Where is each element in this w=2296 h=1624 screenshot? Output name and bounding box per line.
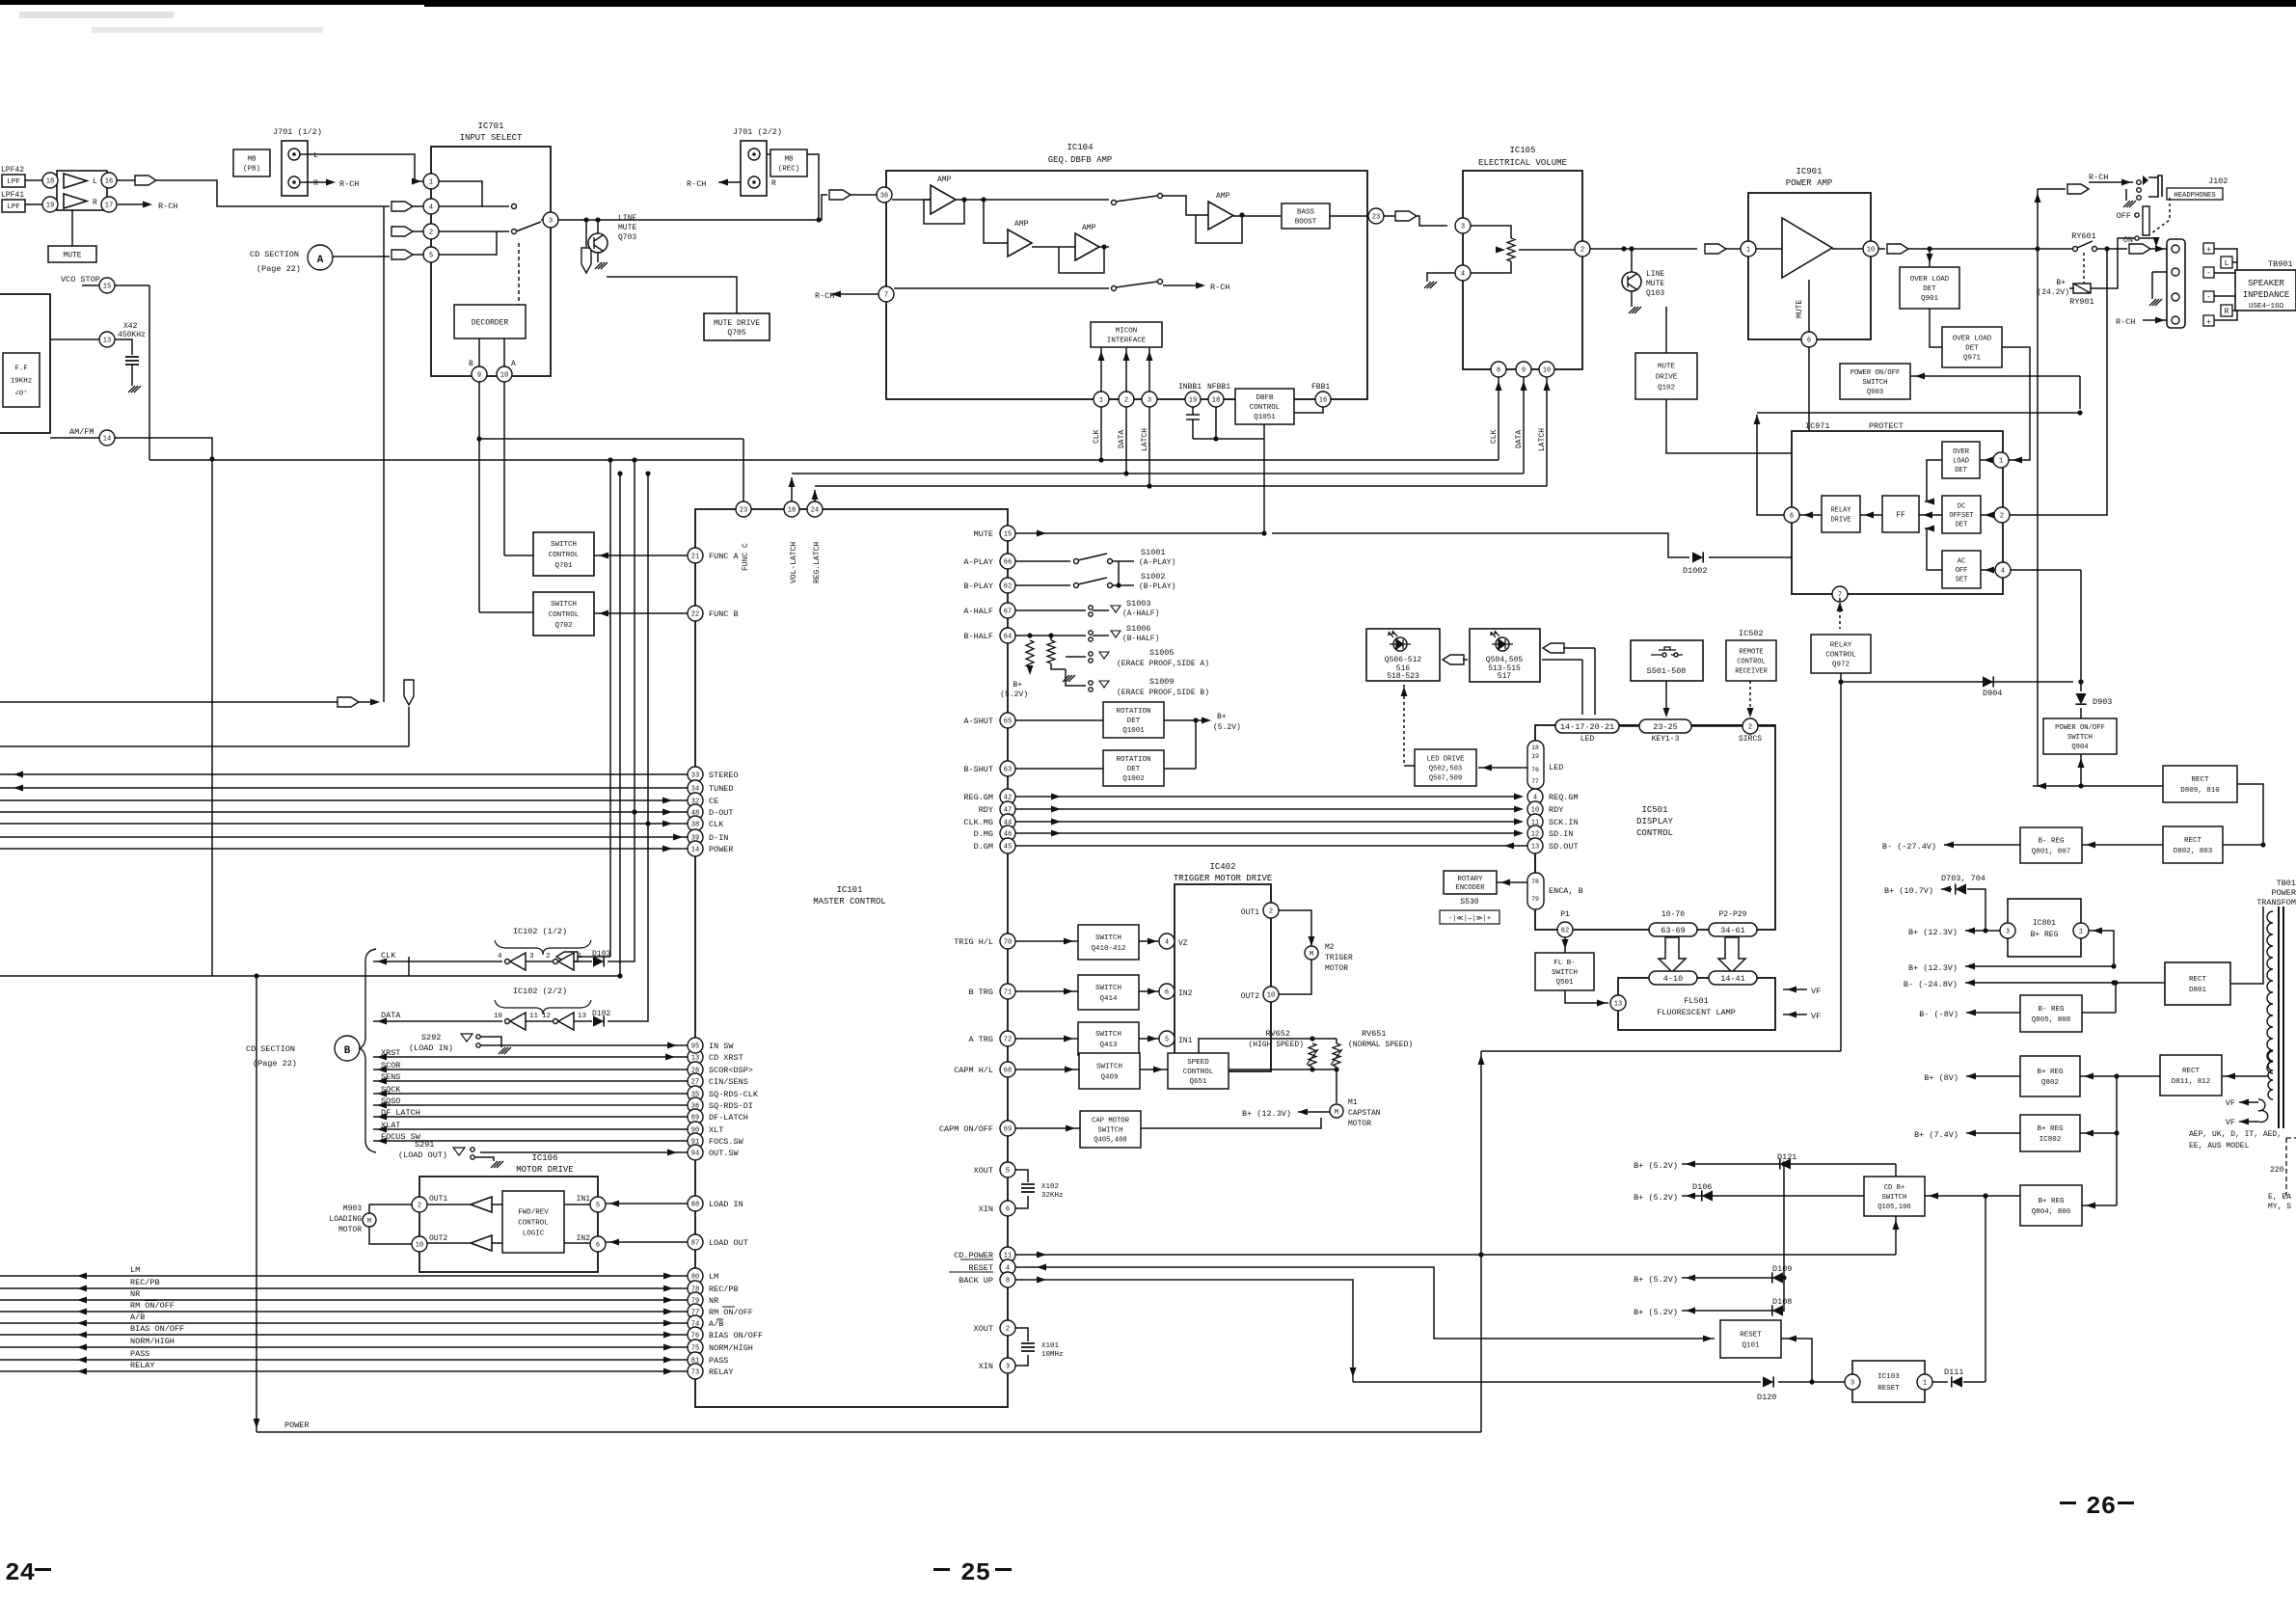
svg-text:6: 6: [1790, 513, 1794, 521]
pin 73 RELAY: [688, 1364, 703, 1379]
svg-text:IC102 (1/2): IC102 (1/2): [513, 927, 567, 936]
svg-text:CE: CE: [709, 797, 718, 806]
svg-text:78: 78: [1531, 879, 1539, 885]
SWITCH Q414 box: [1078, 975, 1139, 1010]
pin 45 D.GM: [1000, 838, 1015, 853]
wire pin4 to acoff: [1981, 569, 1995, 571]
q1001 out: [1164, 719, 1203, 721]
POWER ON/OFF SWITCH Q904 box: [2043, 718, 2117, 754]
svg-text:CONTROL: CONTROL: [549, 611, 580, 619]
svg-text:AMP: AMP: [1014, 220, 1029, 229]
svg-text:AEP, UK, D, IT, AED,: AEP, UK, D, IT, AED,: [2189, 1130, 2282, 1139]
svg-text:3: 3: [2006, 929, 2010, 936]
pin 88 LOAD IN: [688, 1196, 703, 1211]
svg-text:FBB1: FBB1: [1311, 383, 1330, 392]
wire d1002 to protect: [1709, 556, 1792, 558]
svg-text:19KHz: 19KHz: [11, 378, 33, 386]
svg-text:2: 2: [429, 230, 433, 237]
svg-text:DET: DET: [1127, 717, 1141, 725]
wire amp4 to bass: [1233, 215, 1282, 217]
svg-text:Q1002: Q1002: [1122, 775, 1145, 783]
svg-text:IC106: IC106: [531, 1153, 557, 1163]
svg-text:67: 67: [1004, 609, 1012, 616]
key switch symbol: [1651, 647, 1683, 655]
svg-text:B-SHUT: B-SHUT: [963, 765, 993, 774]
svg-text:FUNC C: FUNC C: [742, 543, 750, 571]
wire rect809: [2033, 785, 2163, 787]
svg-text:FUNC A: FUNC A: [709, 552, 740, 561]
svg-text:LM: LM: [709, 1272, 718, 1282]
svg-text:INBB1: INBB1: [1178, 383, 1202, 392]
svg-text:RY901: RY901: [2069, 297, 2094, 307]
wire b-shut: [1015, 768, 1103, 770]
wire capm: [1015, 1069, 1079, 1070]
svg-text:R: R: [771, 179, 776, 188]
amp4 feedback: [1196, 215, 1242, 243]
wire back up: [1015, 1280, 1353, 1382]
svg-text:M: M: [1310, 951, 1313, 959]
svg-text:R-CH: R-CH: [815, 291, 834, 301]
svg-text:SWITCH: SWITCH: [1095, 934, 1121, 942]
svg-text:Q1001: Q1001: [1122, 727, 1145, 735]
svg-text:MUTE: MUTE: [1796, 300, 1804, 318]
pin 16 FBB1: [1315, 392, 1331, 407]
pin 1: [423, 174, 439, 189]
switch up contact a: [1112, 201, 1117, 205]
svg-text:4: 4: [1461, 271, 1465, 279]
wire pin1 tri: [1756, 248, 1782, 250]
svg-text:517: 517: [1498, 672, 1512, 681]
svg-text:MOTOR DRIVE: MOTOR DRIVE: [516, 1165, 573, 1175]
svg-text:S1003: S1003: [1126, 599, 1151, 609]
CAP MOTOR SWITCH box: [1080, 1111, 1141, 1148]
FL501 box: [1618, 978, 1775, 1030]
svg-text:4: 4: [498, 953, 502, 961]
svg-text:CD SECTION: CD SECTION: [246, 1044, 295, 1054]
svg-text:POWER: POWER: [284, 1421, 310, 1430]
svg-text:13: 13: [103, 338, 111, 345]
pin 63 B-SHUT: [1000, 761, 1015, 776]
svg-text:(NORMAL SPEED): (NORMAL SPEED): [1348, 1041, 1413, 1049]
speaker tag wires: [2214, 249, 2237, 262]
micon wires: [1100, 347, 1102, 392]
headphone jack symbol: [2148, 176, 2162, 197]
svg-text:TB901: TB901: [2268, 259, 2293, 269]
wire rect811 to q802: [2080, 1075, 2160, 1077]
oval pins 78 79: [1527, 873, 1544, 909]
svg-text:ROTATION: ROTATION: [1116, 756, 1150, 764]
svg-text:17: 17: [105, 203, 113, 210]
svg-text:LOADING: LOADING: [329, 1215, 362, 1224]
pin 62 P1: [1557, 922, 1573, 937]
svg-text:LOAD OUT: LOAD OUT: [709, 1238, 748, 1248]
svg-text:LED DRIVE: LED DRIVE: [1427, 756, 1465, 764]
svg-text:IN1: IN1: [577, 1195, 591, 1204]
svg-text:CAPM ON/OFF: CAPM ON/OFF: [939, 1124, 993, 1134]
pin 10 105: [1539, 362, 1554, 377]
Q1051 down to mute line: [1263, 439, 1265, 533]
svg-text:S1009: S1009: [1149, 677, 1175, 687]
resistor r2: [1050, 636, 1052, 640]
svg-text:+: +: [2206, 246, 2211, 255]
svg-text:S1005: S1005: [1149, 648, 1175, 658]
page number 26: [2060, 1502, 2076, 1504]
inverter 2b: [554, 1019, 558, 1024]
DBFB CONTROL Q1051 box: [1235, 389, 1294, 424]
pin 21 FUNC A: [688, 548, 703, 563]
wire rotary: [1497, 881, 1527, 883]
svg-text:16: 16: [1319, 397, 1327, 405]
M1 capstan motor: [1330, 1104, 1343, 1118]
diode D1002: [1692, 552, 1703, 562]
switch up blade: [1116, 196, 1157, 202]
svg-text:6: 6: [1807, 338, 1811, 345]
svg-text:R-CH: R-CH: [158, 202, 177, 211]
dashed model box: [2286, 1138, 2296, 1196]
svg-text:D1002: D1002: [1683, 566, 1708, 576]
SWITCH CONTROL Q702 box: [533, 592, 594, 636]
svg-text:B: B: [469, 360, 473, 368]
diode D904 wire: [1841, 681, 2073, 683]
pin 6 XIN: [1000, 1201, 1015, 1216]
pin 4 protect: [1995, 562, 2011, 578]
ground Q103: [1631, 291, 1633, 307]
bus wire TUNED: [0, 787, 688, 789]
svg-text:A: A: [511, 360, 516, 368]
svg-text:D.GM: D.GM: [974, 842, 993, 852]
arrow out of pin10: [1878, 248, 1885, 250]
svg-text:BOOST: BOOST: [1295, 219, 1317, 227]
pin 14 POWER: [688, 841, 703, 856]
out1 triangle: [471, 1197, 492, 1212]
svg-text:Q414: Q414: [1099, 995, 1118, 1003]
func c top wire: [479, 438, 743, 440]
pin 17: [101, 197, 117, 212]
svg-text:+: +: [2206, 318, 2211, 327]
RECT D802 box: [2163, 826, 2223, 863]
wire xin6: [1015, 1196, 1028, 1208]
ROTARY ENCODER box: [1444, 871, 1497, 894]
pot resistor: [1507, 238, 1515, 261]
svg-text:CLK: CLK: [709, 820, 724, 829]
motor wires 402: [1279, 910, 1311, 946]
wire q701 to pin21: [594, 555, 688, 556]
pin 13 SD.OUT 501: [1527, 838, 1543, 853]
pin 36 SQ-RDS-DI: [688, 1097, 703, 1113]
wire to Q901: [1929, 249, 1931, 267]
svg-text:IC802: IC802: [2039, 1136, 2062, 1144]
svg-text:77: 77: [1531, 778, 1539, 785]
left hollow arrow at 992: [556, 952, 578, 961]
wire q805 in: [2082, 1012, 2116, 1014]
svg-text:LPF41: LPF41: [1, 191, 24, 200]
pin 16: [101, 173, 117, 188]
IC901 box: [1748, 193, 1871, 339]
svg-text:4: 4: [1165, 939, 1169, 947]
cap pin19: [1192, 407, 1194, 415]
svg-text:1: 1: [578, 953, 582, 961]
svg-text:EE, AUS MODEL: EE, AUS MODEL: [2189, 1142, 2250, 1150]
svg-text:Q101: Q101: [1742, 1342, 1760, 1350]
svg-text:B+ (8V): B+ (8V): [1924, 1073, 1958, 1083]
pin 64 B-HALF: [1000, 628, 1015, 643]
svg-text:2: 2: [1006, 1326, 1010, 1334]
LPF filter box 41: [2, 200, 25, 212]
IC501 box: [1535, 725, 1775, 930]
plus square 2: [2203, 315, 2214, 326]
q972 down rail: [1840, 673, 1842, 1051]
svg-text:SD.IN: SD.IN: [1549, 829, 1574, 839]
svg-text:5: 5: [1165, 1037, 1169, 1044]
wire Q971 out: [2002, 347, 2030, 456]
bus wire PASS: [0, 1359, 688, 1361]
F.F 19KHz box: [3, 353, 40, 407]
bus wire A/B: [0, 1322, 688, 1324]
bus wire CE: [0, 799, 688, 801]
svg-text:BASS: BASS: [1297, 209, 1315, 217]
svg-text:B- (-24.8V): B- (-24.8V): [1904, 980, 1958, 989]
svg-text:SD.OUT: SD.OUT: [1549, 842, 1579, 852]
r-ch feed wire: [2038, 188, 2066, 190]
wire a-play: [1015, 560, 1070, 562]
wire d103 riser: [608, 460, 635, 961]
dashed led drive link: [1403, 685, 1405, 766]
page number 25: [933, 1568, 950, 1571]
SWITCH Q413 box: [1078, 1022, 1139, 1055]
svg-text:XIN: XIN: [979, 1362, 993, 1371]
svg-text:B+ (12.3V): B+ (12.3V): [1908, 963, 1958, 973]
svg-text:(5.2V): (5.2V): [1000, 690, 1028, 699]
svg-text:B- REG: B- REG: [2038, 838, 2065, 846]
wire LOAD OUT: [606, 1241, 688, 1243]
svg-text:13: 13: [1531, 844, 1539, 852]
ROTATION DET Q1001 box: [1103, 702, 1164, 738]
bus wire STEREO: [0, 773, 688, 775]
wire crystal to gnd: [131, 365, 133, 386]
svg-text:LOGIC: LOGIC: [523, 1231, 545, 1238]
svg-text:CAPM H/L: CAPM H/L: [954, 1066, 993, 1075]
pin 26 SCOR&lt;DSP&gt;: [688, 1062, 703, 1077]
junction clk: [645, 821, 650, 826]
wire rect802 to reg: [2082, 844, 2163, 846]
vertical trunk x398: [383, 206, 385, 702]
svg-text:2: 2: [1580, 247, 1584, 255]
svg-text:Q702: Q702: [554, 622, 572, 630]
wire bass to pin23: [1330, 215, 1368, 217]
wire b+ relay: [2069, 287, 2073, 289]
pin 4 RESET: [1000, 1259, 1015, 1275]
svg-text:∠0°: ∠0°: [14, 390, 28, 398]
rect809 right wire: [2237, 784, 2263, 845]
pin 79 NR: [688, 1292, 703, 1308]
svg-text:IC501: IC501: [1641, 805, 1667, 815]
svg-text:INPEDANCE: INPEDANCE: [2243, 290, 2290, 300]
svg-text:NORM/HIGH: NORM/HIGH: [709, 1343, 753, 1353]
pin 1 clk: [1094, 392, 1109, 407]
svg-text:13: 13: [578, 1013, 587, 1020]
svg-text:ELECTRICAL VOLUME: ELECTRICAL VOLUME: [1478, 158, 1567, 168]
VF wire 2: [1783, 1014, 1807, 1015]
svg-text:72: 72: [1004, 1037, 1012, 1044]
dashed relay link: [2083, 253, 2085, 284]
svg-text:2: 2: [418, 1203, 421, 1210]
svg-text:OUT.SW: OUT.SW: [709, 1149, 740, 1158]
pin 7: [878, 286, 894, 302]
svg-text:CONTROL: CONTROL: [1825, 652, 1856, 660]
svg-text:D109: D109: [1772, 1264, 1792, 1274]
wire R-CH out: [117, 203, 145, 205]
wire inv out: [574, 961, 592, 962]
pin 70 TRIG H/L: [1000, 934, 1015, 949]
svg-text:OUT2: OUT2: [429, 1234, 447, 1243]
jack2 R: [748, 176, 760, 188]
wire after relay: [2096, 248, 2127, 250]
svg-text:R-CH: R-CH: [687, 179, 706, 189]
svg-text:NORM/HIGH: NORM/HIGH: [130, 1337, 175, 1346]
svg-text:Q405,408: Q405,408: [1094, 1137, 1127, 1145]
junction q901: [1927, 246, 1931, 251]
svg-text:B-HALF: B-HALF: [963, 632, 993, 641]
svg-text:5: 5: [429, 253, 433, 260]
dashed jack link: [2151, 198, 2170, 233]
svg-text:CONTROL: CONTROL: [1636, 828, 1673, 838]
wire tri out: [1832, 248, 1863, 250]
svg-text:TRIGGER MOTOR DRIVE: TRIGGER MOTOR DRIVE: [1174, 874, 1273, 883]
svg-text:M903: M903: [343, 1204, 362, 1213]
svg-text:D903: D903: [2093, 697, 2112, 707]
wire d108: [1682, 1310, 1784, 1312]
svg-text:SWITCH: SWITCH: [2067, 734, 2093, 742]
wire into pin36: [851, 194, 877, 196]
svg-text:D802, 803: D802, 803: [2174, 848, 2213, 855]
svg-text:71: 71: [1004, 989, 1012, 997]
pin 8 105: [1491, 362, 1506, 377]
pin 12 SD.IN 501: [1527, 826, 1543, 841]
svg-text:IC105: IC105: [1509, 146, 1535, 155]
svg-text:2: 2: [1748, 724, 1752, 732]
pin 2 XOUT: [1000, 1320, 1015, 1336]
svg-text:18: 18: [1212, 397, 1220, 405]
svg-text:68: 68: [1004, 1068, 1012, 1075]
SWITCH CONTROL Q701 box: [533, 532, 594, 576]
svg-text:VCO STOP: VCO STOP: [61, 275, 100, 284]
func c riser: [743, 439, 744, 501]
latch drop 1192: [1148, 407, 1150, 486]
svg-text:MICON: MICON: [1116, 328, 1138, 336]
wire dc to ff: [1919, 514, 1942, 516]
wire d111: [1963, 1381, 1985, 1383]
gnd s1009: [1063, 675, 1075, 682]
bus wire LM: [0, 1275, 688, 1277]
svg-text:6: 6: [1006, 1206, 1010, 1214]
svg-text:IN2: IN2: [577, 1234, 591, 1243]
bus sd.out: [1015, 845, 1527, 847]
svg-text:TRIGER: TRIGER: [1325, 954, 1353, 962]
wire inv: [526, 961, 553, 962]
svg-text:CD B+: CD B+: [1884, 1184, 1905, 1192]
pin 3 801: [2000, 923, 2015, 938]
svg-text:10: 10: [1531, 807, 1539, 815]
svg-text:16: 16: [105, 178, 113, 186]
svg-text:10MHz: 10MHz: [1041, 1351, 1064, 1359]
reg-latch riser: [814, 490, 816, 501]
wire sw410 out: [1139, 940, 1159, 942]
svg-text:M: M: [1335, 1109, 1338, 1117]
svg-text:FL501: FL501: [1684, 996, 1709, 1006]
svg-text:10: 10: [1543, 367, 1551, 375]
svg-text:IC103: IC103: [1877, 1373, 1900, 1381]
wire xout2: [1015, 1328, 1028, 1341]
svg-text:RECT: RECT: [2182, 1068, 2201, 1075]
svg-text:B+ (5.2V): B+ (5.2V): [1634, 1161, 1678, 1171]
pin 33 STEREO: [688, 767, 703, 782]
overline RESET: [960, 1259, 993, 1260]
pin 18 VOL-LATCH: [784, 501, 799, 517]
svg-text:R-CH: R-CH: [339, 179, 359, 189]
wire q102 up: [1665, 307, 1667, 353]
connector J701-1 box: [282, 141, 308, 196]
pin 6 protect: [1784, 507, 1799, 523]
node A circle: [308, 245, 333, 270]
svg-text:B+ REG: B+ REG: [2037, 1069, 2064, 1076]
svg-text:DF-LATCH: DF-LATCH: [709, 1113, 748, 1123]
pot sym: [1471, 226, 1511, 238]
page top black bar: [0, 0, 2296, 5]
wire LPF42 to pin18: [25, 179, 42, 181]
svg-text:MUTE DRIVE: MUTE DRIVE: [714, 319, 760, 328]
svg-text:Q972: Q972: [1832, 662, 1850, 669]
vol-latch riser: [791, 477, 793, 501]
svg-text:10: 10: [416, 1242, 423, 1250]
svg-text:POWER ON/OFF: POWER ON/OFF: [1850, 369, 1901, 377]
wire overload to ff: [1925, 460, 1942, 501]
svg-text:LINE: LINE: [618, 214, 636, 223]
SPEAKER IMPEDANCE box: [2235, 270, 2296, 311]
svg-text:XOUT: XOUT: [974, 1166, 993, 1176]
amp triangle R: [64, 194, 87, 208]
svg-text:32KHz: 32KHz: [1041, 1192, 1064, 1200]
headphone amp box: [57, 171, 107, 210]
DC OFFSET DET box: [1942, 496, 1981, 533]
svg-text:MB: MB: [247, 156, 257, 164]
svg-text:B-PLAY: B-PLAY: [963, 582, 993, 591]
svg-text:VZ: VZ: [1178, 939, 1188, 948]
svg-text:66: 66: [1004, 559, 1012, 567]
svg-text:13: 13: [1614, 1001, 1622, 1009]
svg-text:MUTE: MUTE: [1658, 364, 1676, 371]
junction d-out: [632, 809, 636, 814]
wire LOAD IN: [606, 1203, 688, 1204]
wire pot tap: [1519, 249, 1575, 251]
svg-text:B- (-8V): B- (-8V): [1919, 1010, 1958, 1019]
svg-text:Q410-412: Q410-412: [1091, 945, 1125, 953]
pin 13 CD XRST: [688, 1049, 703, 1065]
svg-text:14-41: 14-41: [1720, 974, 1745, 984]
svg-text:VF: VF: [1811, 1012, 1821, 1021]
svg-text:AMP: AMP: [937, 176, 952, 184]
pin 27 CIN/SENS: [688, 1073, 703, 1089]
terminal hole 1: [2172, 245, 2179, 253]
IC801 box: [2008, 899, 2081, 957]
MUTE DRIVE Q705 box: [704, 313, 770, 340]
bus y504: [815, 485, 1547, 487]
svg-text:3: 3: [529, 953, 534, 961]
wire q651 out: [1229, 1069, 1337, 1070]
pin 1 protect: [1993, 452, 2009, 468]
svg-text:BACK UP: BACK UP: [959, 1276, 993, 1286]
svg-text:SWITCH: SWITCH: [551, 601, 577, 609]
svg-text:Q971: Q971: [1963, 355, 1982, 363]
